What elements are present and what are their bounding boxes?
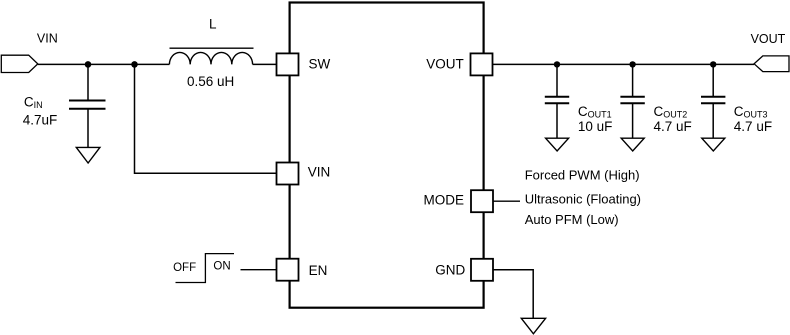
wire inductor to SW pin [253,63,277,65]
signal step OFF/ON [176,254,235,283]
junction A (CIN tap) [85,61,92,68]
capacitor CIN [69,64,106,147]
svg-text:MODE: MODE [424,193,465,208]
svg-text:10 uF: 10 uF [578,119,613,134]
svg-text:VIN: VIN [37,32,58,46]
svg-text:Ultrasonic (Floating): Ultrasonic (Floating) [525,192,641,207]
svg-text:4.7 uF: 4.7 uF [734,119,772,134]
input port VIN [1,55,38,72]
wire input rail [38,63,170,65]
svg-text:EN: EN [309,263,328,278]
svg-text:L: L [209,16,217,31]
wire EN [241,269,277,271]
pin GND [471,259,493,281]
svg-text:Auto PFM (Low): Auto PFM (Low) [525,212,619,227]
wire MODE [493,200,520,202]
svg-text:VOUT: VOUT [426,56,464,71]
svg-text:VOUT: VOUT [751,32,786,46]
svg-text:ON: ON [213,261,230,273]
svg-text:Forced PWM (High): Forced PWM (High) [525,168,640,183]
wire VIN branch [135,64,277,173]
pin SW [277,53,299,75]
wire GND [493,270,533,319]
junction COUT1 [554,61,560,67]
pin VIN [277,163,299,185]
capacitor COUT1 [545,64,569,138]
ground COUT3 [702,138,725,151]
junction B (VIN branch) [131,61,138,68]
svg-text:4.7uF: 4.7uF [23,112,58,127]
svg-text:VIN: VIN [308,165,331,180]
output port VOUT [754,56,789,72]
svg-text:4.7 uF: 4.7 uF [654,119,692,134]
inductor L [169,48,253,64]
pin VOUT [471,53,493,75]
junction COUT2 [629,61,635,67]
capacitor COUT3 [701,64,725,138]
IC U1 body [290,3,484,308]
svg-text:SW: SW [309,56,331,71]
ground CIN [76,147,100,163]
ground COUT2 [621,138,644,151]
pin EN [277,259,299,281]
wire VOUT rail [493,63,755,65]
svg-text:OFF: OFF [173,262,196,274]
capacitor COUT2 [620,64,644,138]
pin MODE [471,190,493,212]
svg-text:GND: GND [435,262,465,277]
ground COUT1 [546,138,569,151]
junction COUT3 [710,61,716,67]
ground GND [521,318,545,334]
svg-text:0.56 uH: 0.56 uH [187,74,234,89]
